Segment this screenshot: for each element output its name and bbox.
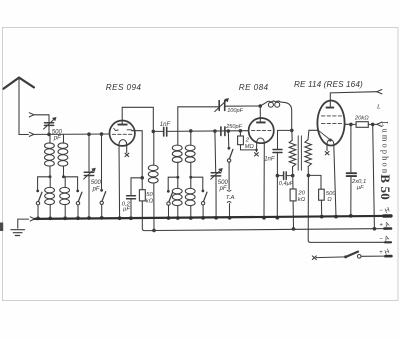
tube V1 filament [119, 140, 127, 146]
svg-text:500: 500 [218, 180, 229, 186]
wire V1 cathode leg to bus [118, 146, 121, 218]
switch S1 [36, 190, 42, 219]
capacitor C5 100pF variable [215, 98, 229, 112]
wire R3 bottom to +A [292, 201, 294, 229]
node S2 bus [76, 216, 80, 220]
node T.A. bus [228, 216, 232, 220]
coil L2b lower right [60, 177, 70, 219]
svg-text:1nF: 1nF [160, 122, 171, 128]
wire V3 cathode leg to bus [334, 145, 336, 217]
wire C3 to bus [130, 199, 132, 218]
node grid2 right of C6 [227, 129, 231, 133]
terminal bar -H [384, 214, 391, 218]
label C1 500pF [52, 130, 63, 142]
wire node A to bus [276, 176, 278, 218]
tube V1 RES094 envelope [110, 121, 135, 146]
wire grid3 [309, 129, 318, 131]
heater mark x +H line [312, 256, 316, 260]
node V2 cathode bus [262, 216, 266, 220]
scan smudge left edge [0, 223, 3, 232]
tube V3 RE114 envelope [317, 101, 344, 146]
wire V2 cathode leg to bus [263, 143, 265, 217]
node L1 tap left [49, 175, 52, 178]
heater mark x V2 [254, 153, 258, 156]
antenna [4, 78, 35, 89]
svg-text:kΩ: kΩ [146, 199, 154, 205]
wire V2 heater leg with x [256, 143, 258, 151]
node C3 bus [129, 216, 133, 220]
heater mark x V3 [325, 152, 329, 155]
svg-text:RE 084: RE 084 [239, 83, 269, 92]
capacitor C4 1nF coupling [164, 127, 167, 136]
transformer T1 primary [289, 130, 296, 175]
jack antenna A1 [29, 132, 34, 136]
svg-text:Lumophon: Lumophon [381, 121, 390, 175]
wire ground stub [18, 219, 29, 228]
jack antenna A2 [29, 113, 34, 117]
wire tap to switch S1 [38, 177, 50, 190]
node primary bottom [291, 174, 295, 178]
svg-text:T.A.: T.A. [226, 195, 236, 201]
transformer T1 core [298, 136, 301, 170]
node A filter [276, 174, 280, 178]
wire C4 to grid line 2 [167, 130, 249, 133]
tube V3 grid lead diagonal [318, 130, 330, 139]
tube V3 grid dashes row2 [322, 123, 342, 125]
svg-text:20kΩ: 20kΩ [354, 116, 369, 122]
node series-cap branch [87, 132, 91, 136]
wire secondary bottom to R4 [308, 175, 321, 189]
resistor R2 2M grid leak [238, 136, 244, 145]
wire anode node to C4 [153, 130, 163, 132]
terminal bar -A [385, 241, 391, 243]
line +A [154, 229, 386, 231]
node V2 anode [258, 104, 262, 108]
wire antenna down-lead [19, 78, 28, 135]
tube V3 grid dashes row1 [322, 115, 342, 117]
wire grid line stage1 [49, 133, 110, 135]
wire V3 heater leg with x [326, 145, 328, 151]
svg-text:RE 114 (RES 164): RE 114 (RES 164) [294, 80, 363, 89]
svg-text:50: 50 [146, 192, 153, 198]
wire R5 to jack [368, 123, 377, 125]
svg-text:kΩ: kΩ [298, 197, 306, 203]
jack ground bus [30, 217, 34, 221]
node V3 cathode bus [334, 215, 338, 219]
node V1 cathode bus [118, 216, 122, 220]
node L1 tap right [62, 175, 65, 178]
node secondary bottom [307, 174, 311, 178]
wire V1 screen lead [132, 131, 143, 177]
line -A [311, 241, 386, 243]
tube V1 screen grid hook [114, 128, 132, 130]
wire V2 anode lead [259, 106, 261, 122]
svg-text:2x0,1: 2x0,1 [351, 179, 366, 185]
node switch branch [100, 132, 104, 136]
label C10 2x0.1uF [351, 179, 366, 191]
jack speaker upper [377, 90, 382, 94]
wire anode net to C8 branch [278, 130, 292, 148]
svg-text:pF: pF [53, 136, 61, 142]
wire feedback line top [178, 107, 219, 145]
capacitor C3 0.2uF [127, 196, 136, 199]
wire tap to switch S2 [64, 177, 78, 190]
node C10 bus [349, 214, 353, 218]
svg-text:B 50: B 50 [378, 174, 393, 200]
terminal hook T.A. lower [227, 202, 231, 203]
transformer T1 secondary [305, 130, 312, 175]
wire V3 anode to speaker jack [330, 92, 377, 107]
tube V2 RE084 envelope [249, 118, 274, 143]
wire R4 bottom to bus [320, 200, 322, 216]
coil L2a lower left [45, 177, 55, 219]
wire R1 bottom to +A line [142, 201, 154, 231]
node V2 anode net transformer [290, 129, 294, 133]
node L4b tap [189, 176, 192, 179]
capacitor C9 0.4uF [277, 172, 292, 180]
svg-text:MΩ: MΩ [245, 144, 255, 150]
wire V1 anode top loop [122, 107, 153, 130]
svg-text:pF: pF [219, 186, 227, 192]
node S3 bus [100, 216, 104, 220]
wire V1 heater leg [126, 146, 128, 153]
node jack +A [373, 227, 377, 231]
node R4 bus [320, 215, 324, 219]
coil L3 anode choke [148, 131, 158, 230]
resistor R1 50k [139, 190, 145, 201]
capacitor C7 500pF tuning [211, 131, 223, 218]
node jack branch [371, 123, 375, 127]
node V1 anode junction [152, 130, 156, 134]
coil L5a lower left block2 [172, 177, 182, 218]
node L4b grid line [189, 129, 193, 133]
wire A2 to C1 [34, 115, 49, 122]
wire secondary bottom to -A [308, 175, 311, 242]
switch S4 [167, 190, 173, 218]
svg-text:500: 500 [91, 180, 102, 186]
svg-text:2: 2 [245, 137, 250, 143]
svg-text:µF: µF [357, 185, 364, 191]
wire tap to switch S5 [191, 177, 203, 190]
wire A1 to grid line [34, 133, 49, 135]
label C2 500pF [91, 180, 102, 192]
label R1 50 kOhm [146, 192, 154, 205]
node S5 bus [201, 216, 205, 220]
wire +H right [361, 255, 386, 257]
capacitor C1 500pF variable [44, 117, 57, 134]
node C7 bus [214, 216, 218, 220]
node L2a bus [48, 217, 52, 221]
tube V3 anode plate [326, 107, 334, 109]
svg-text:100pF: 100pF [227, 108, 243, 114]
node C1/L1 top [47, 133, 51, 137]
label R4 500 Ohm [326, 191, 336, 203]
ground [11, 230, 25, 236]
svg-text:20: 20 [297, 190, 305, 196]
label R3 20 kOhm [297, 190, 305, 202]
svg-text:0,4µF: 0,4µF [279, 181, 294, 187]
node R2 filament join [255, 149, 258, 152]
label C3 0.2uF [122, 201, 131, 212]
capacitor C10 2x0.1uF [347, 124, 357, 215]
wire C5 to V2 anode node [225, 105, 261, 107]
node grid2 tuning branch [213, 129, 217, 133]
tube V2 grid dashes [252, 130, 272, 132]
switch S7 mains [346, 252, 361, 258]
coil L1a antenna upper left [45, 134, 55, 176]
coil L5b lower right block2 [185, 177, 195, 218]
jack speaker lower [377, 122, 382, 126]
bus -H main earth line [35, 216, 391, 219]
wire R3 top [292, 176, 294, 189]
node grid leak tap [239, 129, 243, 133]
coil L6 HF choke [260, 101, 292, 129]
resistor R5 20k horizontal [356, 122, 368, 128]
svg-text:L: L [376, 104, 381, 111]
wire screen node to R5 [351, 123, 356, 125]
svg-text:H: H [384, 206, 392, 215]
label +H [379, 248, 391, 257]
wire +H left [316, 256, 345, 259]
node S4 bus [167, 216, 171, 220]
node A bus [275, 216, 279, 220]
node +H switch [344, 255, 347, 258]
node L5a bus [176, 216, 180, 220]
wire C8 to node A [276, 153, 278, 176]
wire R2 top [239, 131, 241, 136]
label -H [379, 206, 391, 215]
coil L1b antenna upper right [58, 134, 68, 176]
tube V1 grid dashes [112, 133, 132, 135]
border frame of schematic page [3, 28, 399, 301]
switch S5 [201, 190, 207, 218]
tube V2 anode plate [256, 122, 265, 124]
terminal bar +A [384, 227, 391, 230]
tube V2 filament [257, 138, 265, 143]
terminal bar +H [385, 255, 391, 258]
node L4a tap [176, 176, 179, 179]
node L3 +A line [152, 229, 156, 233]
capacitor C8 1nF [273, 150, 282, 153]
node S1 bus [36, 217, 40, 221]
capacitor C6 250pF [221, 127, 225, 136]
label -A [379, 234, 391, 243]
wire R2 bottom to filament [241, 145, 257, 150]
svg-text:1nF: 1nF [264, 157, 275, 163]
tube V3 filament [327, 140, 334, 145]
label +A [379, 221, 391, 230]
wire T.A. to bus [229, 204, 231, 218]
node R3 +A [292, 227, 296, 231]
node L5b bus [189, 216, 193, 220]
coil L4a upper left block2 [172, 145, 182, 177]
switch S2 [76, 190, 82, 219]
svg-text:pF: pF [92, 186, 100, 192]
tube V1 anode plate [118, 124, 128, 126]
wire R1 top [141, 178, 143, 190]
wire tap to switch S4 [168, 177, 178, 190]
svg-text:RES 094: RES 094 [106, 83, 142, 92]
wire V3 screen lead [345, 123, 351, 125]
node V3 filament top [329, 139, 332, 142]
svg-text:µF: µF [123, 207, 130, 213]
node C2 bus [87, 216, 91, 220]
label R2 2 MOhm [245, 137, 255, 149]
capacitor C2 500pF series variable [84, 134, 96, 218]
resistor R4 500 Ohm [319, 189, 325, 200]
terminal hook T.A. upper [227, 190, 231, 191]
node screen3 [349, 123, 353, 127]
heater mark x V1 [125, 153, 129, 156]
node screen RC [140, 176, 144, 180]
switch S3 with wire [100, 134, 106, 218]
resistor R3 20k [290, 189, 296, 201]
node L2b bus [63, 216, 67, 220]
coil L4b upper right block2 [185, 131, 195, 177]
label C7 500pF [218, 180, 229, 192]
svg-text:Ω: Ω [327, 197, 332, 203]
wire jack branch to +A [373, 124, 375, 228]
switch S6 pickup [227, 131, 232, 189]
wire screen node to C3 [131, 178, 142, 195]
